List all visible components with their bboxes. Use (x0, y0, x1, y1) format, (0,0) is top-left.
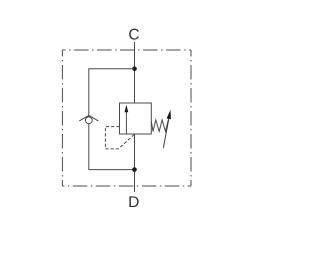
spring adjustment arrow (163, 119, 168, 148)
node top junction (132, 67, 137, 72)
spring (151, 120, 168, 131)
check valve ball (85, 117, 92, 124)
internal flow arrow (125, 112, 127, 135)
enclosure boundary (dash-dot) (62, 50, 191, 186)
pilot line (dashed) (105, 127, 134, 149)
svg-text:D: D (128, 194, 139, 211)
port C line (134, 42, 136, 103)
wire main line below valve (134, 134, 136, 192)
valve body square U1 (120, 103, 152, 134)
wire bypass branch (89, 69, 135, 170)
check valve seat (79, 115, 98, 121)
node bottom junction (132, 167, 137, 172)
svg-text:C: C (128, 26, 139, 43)
